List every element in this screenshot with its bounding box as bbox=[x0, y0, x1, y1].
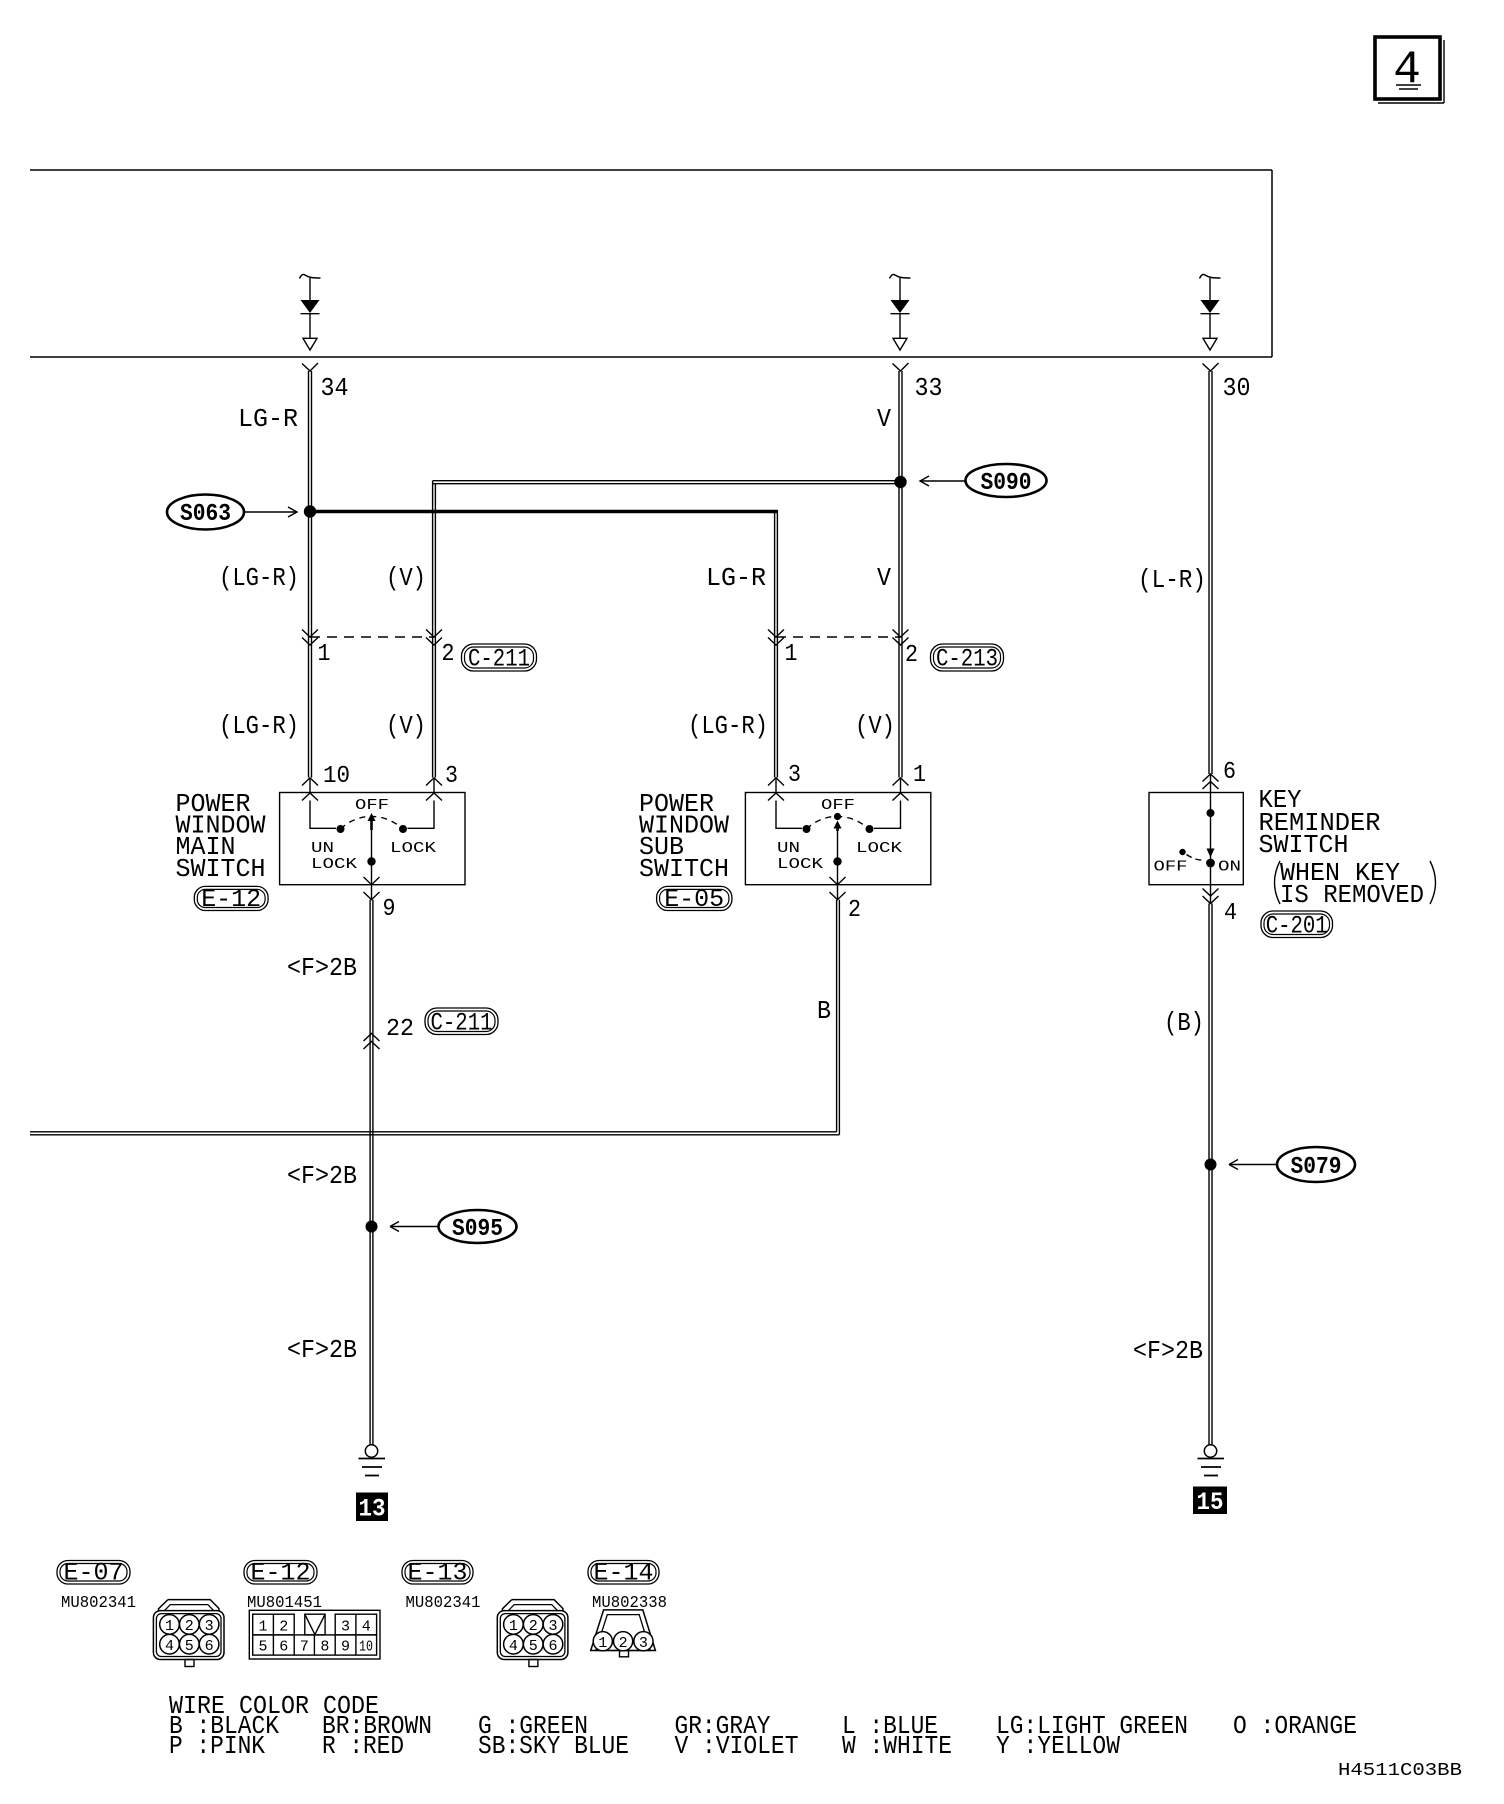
splice S095 junction dot bbox=[366, 1221, 378, 1233]
pin entry sub pin3 single lead bbox=[775, 778, 777, 793]
svg-text:9: 9 bbox=[383, 896, 396, 923]
pin entry chevron wire B top bbox=[426, 778, 442, 786]
svg-text:33: 33 bbox=[915, 373, 943, 403]
connector label E-05 bbox=[657, 885, 732, 914]
svg-text:S095: S095 bbox=[452, 1216, 503, 1243]
svg-text:30: 30 bbox=[1223, 373, 1251, 403]
svg-text:2: 2 bbox=[185, 1618, 194, 1635]
svg-text:10: 10 bbox=[323, 763, 350, 790]
svg-text:1: 1 bbox=[258, 1619, 267, 1636]
main switch left contact leg pin10 bbox=[310, 801, 336, 829]
wire 9 vertical (double line) to ground 13 bbox=[370, 900, 373, 1445]
connector drawing E-14 (3 pin) bbox=[591, 1610, 656, 1657]
svg-text:LG-R: LG-R bbox=[238, 404, 298, 434]
main switch name text bbox=[176, 789, 266, 884]
connector label C-213 bbox=[931, 644, 1004, 674]
bus box (from previous sheet) top line bbox=[30, 169, 1272, 171]
svg-text:LOCK: LOCK bbox=[311, 856, 357, 873]
sub switch exit lead bbox=[837, 885, 839, 900]
svg-text:ON: ON bbox=[1218, 859, 1241, 876]
main switch right contact dot (LOCK) bbox=[399, 825, 407, 833]
key switch OFF contact dot bbox=[1179, 849, 1185, 855]
wire color code row 1 bbox=[169, 1711, 1357, 1741]
splice S063 junction dot bbox=[304, 505, 316, 517]
connector label C-211 (pin22) bbox=[425, 1008, 498, 1038]
legend label E-07 bbox=[57, 1559, 130, 1588]
svg-text:V: V bbox=[877, 563, 891, 593]
sub switch exit chevron at box edge bbox=[830, 877, 846, 885]
sub switch name text bbox=[639, 789, 729, 884]
bus box bottom line bbox=[30, 356, 1272, 358]
svg-text:1: 1 bbox=[785, 641, 798, 668]
connector chevrons sub pin3 side bbox=[768, 630, 784, 646]
svg-text:3: 3 bbox=[205, 1618, 214, 1635]
svg-text:6: 6 bbox=[279, 1639, 288, 1656]
sub switch lever arrow bbox=[834, 821, 842, 832]
svg-text:(V): (V) bbox=[855, 711, 895, 741]
pin entry chevron wire A inside bbox=[302, 793, 318, 801]
key switch lever arrow (down) bbox=[1207, 849, 1215, 858]
key switch through wire bbox=[1210, 793, 1212, 885]
ground symbol 15 bbox=[1198, 1445, 1225, 1476]
svg-text:C-211: C-211 bbox=[468, 645, 530, 674]
svg-text:2: 2 bbox=[279, 1619, 288, 1636]
svg-text:<F>2B: <F>2B bbox=[1133, 1336, 1203, 1366]
svg-text:C-211: C-211 bbox=[431, 1009, 493, 1038]
svg-text:OFF: OFF bbox=[355, 797, 389, 814]
svg-text:5: 5 bbox=[258, 1639, 267, 1656]
svg-text:6: 6 bbox=[1223, 759, 1236, 786]
key reminder switch box bbox=[1149, 793, 1243, 885]
sub switch dashed travel arc bbox=[807, 816, 869, 829]
svg-text:9: 9 bbox=[341, 1639, 350, 1656]
svg-text:S090: S090 bbox=[981, 470, 1032, 497]
svg-text:3: 3 bbox=[788, 762, 801, 789]
wire main switch pin3 vertical (double line) bbox=[433, 481, 436, 778]
wire pin4 vertical (double line) to ground 15 bbox=[1209, 904, 1212, 1445]
svg-text:(LG-R): (LG-R) bbox=[219, 563, 299, 593]
svg-text:3: 3 bbox=[548, 1618, 557, 1635]
power window main switch box E-12 bbox=[280, 793, 465, 885]
svg-text:3: 3 bbox=[445, 763, 458, 790]
svg-text:1: 1 bbox=[913, 762, 926, 789]
connector drawing E-13 (6 pin) bbox=[497, 1600, 568, 1667]
legend label E-14 bbox=[588, 1559, 659, 1588]
splice S090 junction dot bbox=[894, 476, 906, 488]
svg-text:6: 6 bbox=[205, 1638, 214, 1655]
svg-text:10: 10 bbox=[359, 1639, 373, 1656]
svg-text:4: 4 bbox=[165, 1638, 174, 1655]
svg-text:(LG-R): (LG-R) bbox=[688, 711, 768, 741]
svg-text:LOCK: LOCK bbox=[777, 856, 823, 873]
svg-text:UN: UN bbox=[777, 840, 800, 857]
splice S090 callout bbox=[920, 464, 1047, 497]
svg-text:LOCK: LOCK bbox=[856, 840, 902, 857]
key switch OFF link dash bbox=[1187, 855, 1205, 861]
svg-text:15: 15 bbox=[1197, 1488, 1224, 1517]
connector label E-12 bbox=[194, 885, 268, 914]
sub switch pivot dot bbox=[833, 857, 841, 865]
svg-text:<F>2B: <F>2B bbox=[287, 1335, 357, 1365]
svg-text:C-201: C-201 bbox=[1266, 912, 1328, 941]
svg-text:1: 1 bbox=[318, 641, 331, 668]
diode symbol above pin 33 bbox=[890, 274, 911, 350]
svg-text:3: 3 bbox=[639, 1635, 648, 1652]
svg-text:4: 4 bbox=[1224, 900, 1237, 927]
svg-text:(B): (B) bbox=[1164, 1008, 1204, 1038]
pin entry wire B single lead bbox=[433, 778, 435, 793]
splice S063 callout bbox=[167, 495, 297, 530]
sub switch pivot wire bbox=[837, 829, 839, 885]
sub switch left contact leg pin3 bbox=[776, 801, 802, 829]
connector C-213 dashed interface line bbox=[776, 636, 900, 638]
svg-text:Y :YELLOW: Y :YELLOW bbox=[996, 1731, 1120, 1761]
svg-text:6: 6 bbox=[548, 1638, 557, 1655]
wire color code row 2 bbox=[169, 1731, 1120, 1761]
wire L-R pin30 vertical (double line) bbox=[1209, 371, 1212, 774]
svg-text:R :RED: R :RED bbox=[322, 1731, 404, 1761]
legend label E-13 bbox=[402, 1559, 473, 1588]
main switch exit chevron at box edge bbox=[364, 877, 380, 885]
key switch pin6 lead bbox=[1210, 774, 1212, 793]
svg-text:2: 2 bbox=[442, 641, 455, 668]
key reminder switch name text bbox=[1259, 785, 1381, 860]
key switch pin4 exit chevrons bbox=[1203, 889, 1219, 904]
ground reference 13 bbox=[356, 1493, 388, 1524]
sub switch left contact dot (UNLOCK) bbox=[803, 825, 811, 833]
svg-text:V: V bbox=[877, 404, 891, 434]
power window sub switch box E-05 bbox=[745, 793, 930, 885]
key switch ON contact dot bbox=[1206, 859, 1215, 868]
main switch left contact dot (UNLOCK) bbox=[337, 825, 345, 833]
svg-text:(V): (V) bbox=[386, 563, 426, 593]
svg-text:4: 4 bbox=[509, 1638, 518, 1655]
pin entry chevron wire A top bbox=[302, 778, 318, 786]
page number box 4 bbox=[1375, 37, 1444, 103]
svg-text:W :WHITE: W :WHITE bbox=[842, 1731, 952, 1761]
connector chevrons wire 34 side bbox=[302, 630, 318, 646]
thin double horizontal wire from corner to S090 bbox=[433, 481, 900, 484]
connector drawing E-12 (10 pin) bbox=[249, 1610, 380, 1659]
wire LG-R pin34 vertical (double line) bbox=[309, 371, 312, 778]
pin entry sub pin1 single lead bbox=[900, 778, 902, 793]
wire sub switch pin3 vertical (double line) bbox=[775, 510, 778, 778]
ground reference 15 bbox=[1193, 1487, 1227, 1518]
svg-text:1: 1 bbox=[598, 1635, 607, 1652]
main switch right contact leg pin3 bbox=[408, 801, 435, 829]
svg-text:V :VIOLET: V :VIOLET bbox=[675, 1731, 799, 1761]
svg-text:8: 8 bbox=[320, 1639, 329, 1656]
pin entry chevron sub pin1 top bbox=[893, 778, 909, 786]
splice S095 callout bbox=[390, 1210, 517, 1243]
svg-text:C-213: C-213 bbox=[936, 645, 998, 674]
svg-text:5: 5 bbox=[529, 1638, 538, 1655]
svg-text:B: B bbox=[817, 996, 831, 1026]
sub switch right contact leg pin1 bbox=[874, 801, 901, 829]
pin entry chevron sub pin3 top bbox=[768, 778, 784, 786]
svg-text:H4511C03BB: H4511C03BB bbox=[1338, 1761, 1462, 1781]
svg-text:2: 2 bbox=[529, 1618, 538, 1635]
svg-text:E-12: E-12 bbox=[251, 1559, 311, 1588]
svg-text:S063: S063 bbox=[180, 501, 231, 528]
svg-text:E-07: E-07 bbox=[64, 1559, 124, 1588]
sub switch exit chevron below box bbox=[830, 892, 846, 900]
svg-text:<F>2B: <F>2B bbox=[287, 1161, 357, 1191]
main switch dashed travel arc bbox=[341, 816, 403, 829]
svg-text:IS REMOVED: IS REMOVED bbox=[1280, 880, 1424, 910]
connector label C-201 bbox=[1261, 911, 1333, 941]
svg-text:SB:SKY BLUE: SB:SKY BLUE bbox=[478, 1731, 629, 1761]
connector chevrons wire V side bbox=[426, 630, 442, 646]
connector drawing E-07 (6 pin) bbox=[153, 1600, 224, 1667]
pin entry chevron wire B inside bbox=[426, 793, 442, 801]
svg-text:OFF: OFF bbox=[1154, 859, 1188, 876]
svg-text:SWITCH: SWITCH bbox=[1259, 830, 1349, 860]
svg-text:13: 13 bbox=[359, 1495, 386, 1524]
svg-text:MU802341: MU802341 bbox=[61, 1594, 136, 1613]
bus tap pin 30 bbox=[1203, 363, 1219, 371]
svg-text:(L-R): (L-R) bbox=[1138, 565, 1206, 595]
main switch pivot dot bbox=[367, 857, 375, 865]
sub switch OFF position dot bbox=[834, 813, 841, 820]
bus tap pin 34 bbox=[302, 363, 318, 371]
wire V pin33 vertical (double line) bbox=[899, 371, 902, 778]
svg-text:(LG-R): (LG-R) bbox=[219, 711, 299, 741]
connector C-211 pin22 chevrons bbox=[364, 1034, 380, 1050]
wire B horizontal (double line) to left sheet edge bbox=[30, 1132, 839, 1135]
connector C-211 dashed interface line bbox=[310, 636, 434, 638]
connector chevrons sub pin1 side bbox=[893, 630, 909, 646]
svg-text:S079: S079 bbox=[1291, 1154, 1342, 1181]
pin entry chevron sub pin3 inside bbox=[768, 793, 784, 801]
svg-text:2: 2 bbox=[848, 897, 861, 924]
key removed note with big parens bbox=[1275, 858, 1436, 910]
svg-text:(V): (V) bbox=[386, 711, 426, 741]
svg-text:O :ORANGE: O :ORANGE bbox=[1233, 1711, 1357, 1741]
splice S079 junction dot bbox=[1205, 1159, 1217, 1171]
svg-text:LG-R: LG-R bbox=[706, 563, 766, 593]
main switch pivot wire bbox=[371, 829, 373, 885]
svg-text:E-05: E-05 bbox=[664, 885, 724, 914]
svg-text:3: 3 bbox=[341, 1619, 350, 1636]
pin entry wire A single lead bbox=[309, 778, 311, 793]
svg-text:E-14: E-14 bbox=[594, 1559, 654, 1588]
svg-text:5: 5 bbox=[185, 1638, 194, 1655]
main switch lever arrow bbox=[368, 813, 376, 830]
svg-text:UN: UN bbox=[311, 840, 334, 857]
main switch exit lead bbox=[371, 885, 373, 900]
sub switch right contact dot (LOCK) bbox=[866, 825, 874, 833]
svg-text:OFF: OFF bbox=[821, 797, 855, 814]
svg-text:E-13: E-13 bbox=[408, 1559, 468, 1588]
svg-text:1: 1 bbox=[165, 1618, 174, 1635]
key switch upper contact dot bbox=[1207, 809, 1215, 817]
legend label E-12 bbox=[244, 1559, 317, 1588]
svg-text:1: 1 bbox=[509, 1618, 518, 1635]
key switch pin4 lead bbox=[1210, 885, 1212, 904]
thick wire from S063 to sub switch bbox=[310, 510, 777, 513]
svg-text:P :PINK: P :PINK bbox=[169, 1731, 265, 1761]
svg-text:E-12: E-12 bbox=[201, 885, 261, 914]
svg-text:SWITCH: SWITCH bbox=[639, 854, 729, 884]
svg-text:SWITCH: SWITCH bbox=[176, 854, 266, 884]
svg-text:<F>2B: <F>2B bbox=[287, 953, 357, 983]
svg-text:2: 2 bbox=[905, 642, 918, 669]
svg-text:4: 4 bbox=[362, 1619, 371, 1636]
svg-text:34: 34 bbox=[321, 373, 349, 403]
diode symbol above pin 34 bbox=[300, 274, 321, 350]
bus box right edge bbox=[1271, 170, 1273, 357]
splice S079 callout bbox=[1229, 1147, 1355, 1182]
key switch pin6 entry chevrons bbox=[1203, 774, 1219, 789]
main switch exit chevron below box bbox=[364, 892, 380, 900]
svg-text:MU802341: MU802341 bbox=[406, 1594, 481, 1613]
ground symbol 13 bbox=[359, 1445, 386, 1476]
pin entry chevron sub pin1 inside bbox=[893, 793, 909, 801]
wire B from sub switch pin2 vertical (double line) bbox=[837, 900, 840, 1135]
bus tap pin 33 bbox=[893, 363, 909, 371]
svg-text:2: 2 bbox=[619, 1635, 628, 1652]
svg-text:7: 7 bbox=[300, 1639, 309, 1656]
svg-text:22: 22 bbox=[386, 1016, 414, 1043]
svg-text:LOCK: LOCK bbox=[390, 840, 436, 857]
diode symbol above pin 30 bbox=[1200, 274, 1221, 350]
connector label C-211 bbox=[462, 644, 537, 674]
